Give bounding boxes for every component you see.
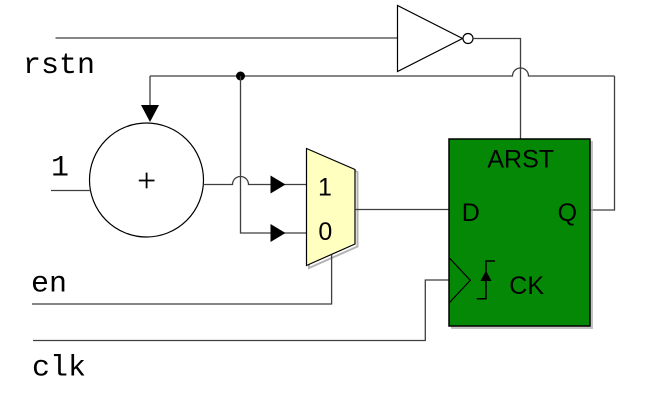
svg-text:1: 1	[318, 174, 332, 202]
node junction dot	[236, 72, 245, 81]
flip-flop U4	[449, 139, 592, 328]
pin CK rising edge symbol	[477, 261, 495, 299]
wire feedback down into adder	[149, 76, 151, 107]
svg-text:D: D	[462, 199, 480, 227]
arrowhead into mux input 0	[271, 224, 286, 242]
svg-text:CK: CK	[509, 272, 544, 300]
wire mux output to D	[355, 209, 449, 211]
wire inverter output to ARST pin	[473, 39, 521, 140]
wire Q feedback top horizontal with hop at x=520	[150, 68, 615, 76]
wire junction down to mux input 0	[241, 76, 307, 233]
inverter U1	[398, 6, 474, 72]
mux U3	[307, 149, 358, 269]
wire clk input to CK pin	[33, 280, 449, 341]
wire rstn input	[56, 37, 398, 39]
svg-text:Q: Q	[558, 199, 577, 227]
adder U2	[90, 123, 204, 237]
svg-text:ARST: ARST	[487, 146, 554, 174]
pin CK chevron	[449, 258, 470, 304]
svg-text:rstn: rstn	[23, 49, 95, 83]
arrowhead into mux input 1	[271, 176, 286, 194]
wire Q feedback right vertical	[591, 76, 615, 210]
svg-text:0: 0	[318, 218, 332, 246]
wire constant 1 to adder	[51, 190, 91, 192]
arrowhead into adder	[141, 105, 159, 122]
label plus sign	[139, 173, 155, 189]
svg-text:en: en	[31, 268, 67, 302]
wire en input to mux select	[32, 255, 332, 304]
wire adder output to mux input 1 with hop at x=240	[203, 177, 306, 185]
svg-text:1: 1	[51, 152, 69, 186]
svg-text:clk: clk	[32, 351, 86, 385]
